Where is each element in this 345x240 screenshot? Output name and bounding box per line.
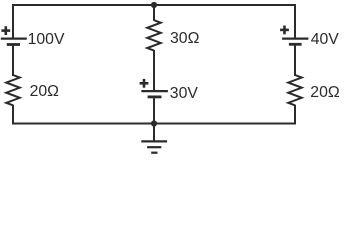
wire middle branch middle segment [153,50,155,91]
node bottom junction dot [151,120,157,126]
resistor R2 30ohm zigzag [147,20,161,50]
wire right branch bottom segment [294,105,296,125]
ground symbol bar 3 [151,152,157,154]
svg-text:30V: 30V [170,85,199,102]
ground symbol bar 2 [147,146,161,148]
wire left branch top segment [12,4,14,38]
battery V1 100V negative plate [7,43,20,46]
battery V2 30V positive plate [141,90,168,92]
ground symbol bar 1 [141,140,167,142]
polarity + sign of V1 [1,26,10,35]
svg-text:30Ω: 30Ω [170,30,200,47]
ground stub wire [153,124,155,142]
wire bottom horizontal (ground rail) [12,123,296,125]
resistor R1 20ohm zigzag [6,75,20,105]
polarity + sign of V2 [140,79,149,88]
wire left branch middle segment [12,45,14,76]
battery V3 40V negative plate [289,43,302,46]
wire left branch bottom segment [12,105,14,125]
node top junction dot [151,2,157,8]
svg-text:20Ω: 20Ω [30,83,60,100]
svg-text:100V: 100V [28,31,65,48]
battery V2 30V negative plate [148,96,162,99]
battery V3 40V positive plate [282,37,308,39]
polarity + sign of V3 [280,26,289,35]
resistor R3 20ohm zigzag [288,75,302,105]
svg-text:20Ω: 20Ω [310,84,340,101]
wire middle branch top segment [153,4,155,21]
battery V1 100V positive plate [1,37,27,39]
wire middle branch bottom segment [153,97,155,124]
wire right branch middle segment [294,45,296,76]
wire right branch top segment [294,4,296,38]
svg-text:40V: 40V [311,31,340,48]
wire top horizontal (node A top rail) [12,4,296,6]
